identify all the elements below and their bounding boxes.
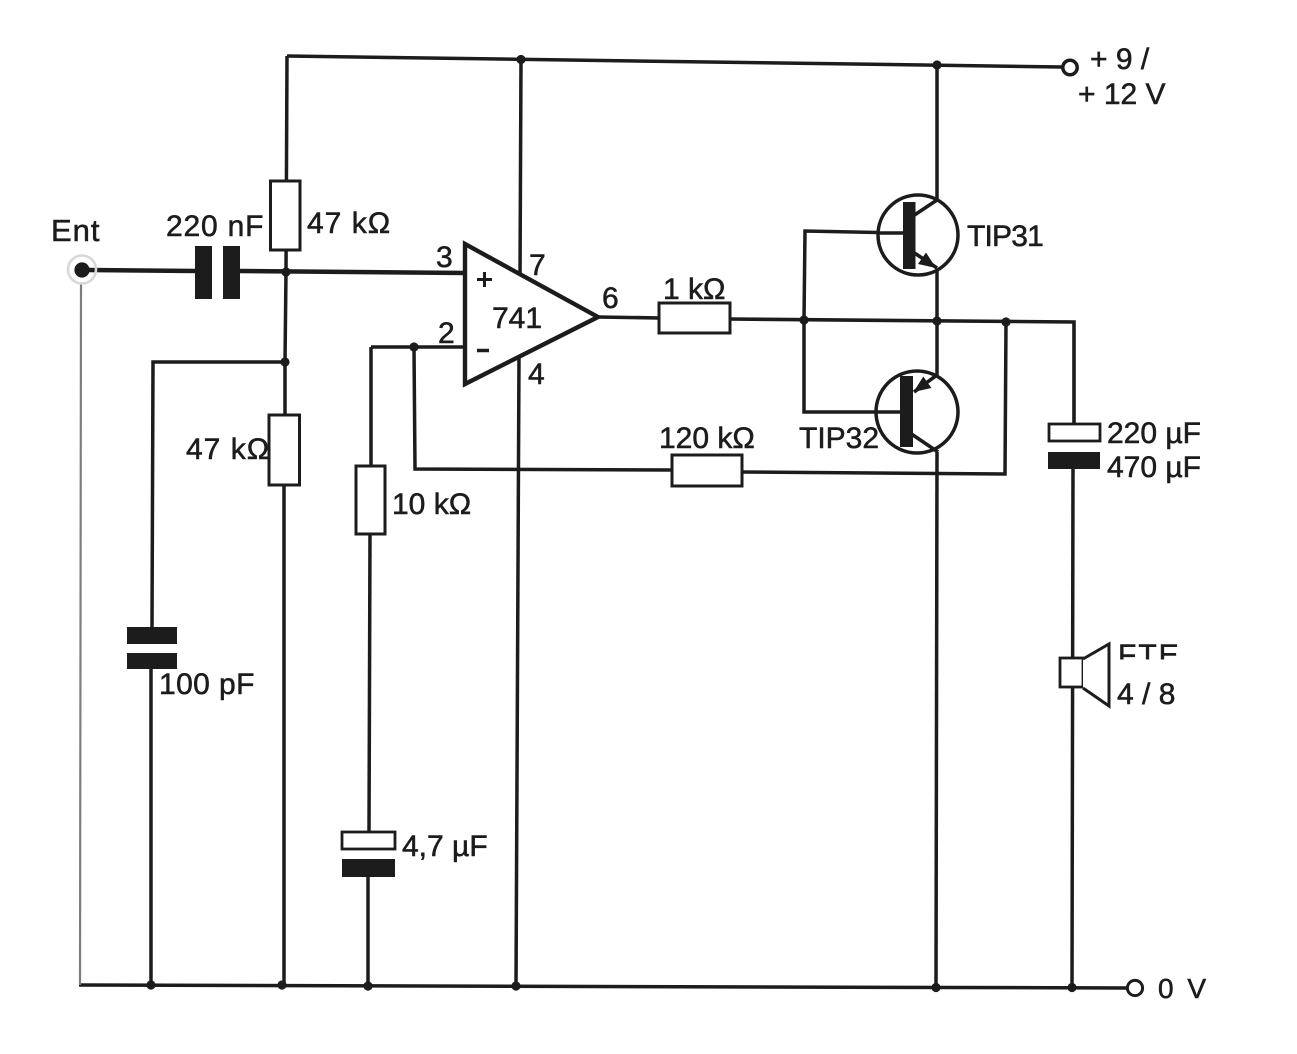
wire node B left and down to 100pF [152, 362, 285, 628]
capacitor C3 4.7uF electrolytic [342, 832, 395, 849]
resistor R1 47k [271, 181, 301, 250]
node rail 100pF [146, 980, 155, 989]
svg-text:7: 7 [529, 249, 546, 282]
node rail speaker [1067, 983, 1076, 992]
node rail 4.7uF [363, 981, 372, 990]
capacitor C2 100pF [127, 627, 177, 644]
node E base drive junction [799, 315, 808, 324]
svg-text:0 V: 0 V [1158, 973, 1209, 1004]
wire pin2 horizontal [371, 345, 465, 349]
svg-text:47 kΩ: 47 kΩ [307, 207, 391, 240]
terminal +V supply [1063, 60, 1077, 74]
capacitor C4 220/470uF electrolytic [1049, 424, 1100, 441]
terminal Ent input [68, 256, 96, 284]
svg-text:4,7 µF: 4,7 µF [402, 830, 488, 863]
wire pin7 vertical [520, 59, 521, 280]
node D output-feedback junction [1001, 317, 1010, 326]
wire TIP31 collector vertical [935, 65, 939, 201]
svg-text:120 kΩ: 120 kΩ [659, 422, 755, 455]
node rail TIP32 collector [931, 983, 940, 992]
terminal 0V [1127, 980, 1142, 995]
svg-text:+ 12 V: + 12 V [1078, 78, 1166, 111]
wire TIP32 base L [804, 320, 900, 412]
resistor R2 47k [269, 415, 300, 485]
svg-text:TIP31: TIP31 [967, 220, 1043, 253]
wire 4.7uF to bottom rail [366, 876, 370, 986]
svg-text:4: 4 [528, 358, 545, 391]
speaker LS [1060, 658, 1083, 687]
wire left vertical from rail to node A [286, 56, 287, 272]
wire top supply rail [287, 56, 1062, 67]
wire input to op-amp pin3 [88, 270, 195, 271]
svg-text:4 / 8: 4 / 8 [1117, 678, 1175, 711]
wire 120k right to riser up to node D [741, 322, 1006, 474]
node rail 47k [277, 980, 286, 989]
node A pin3 junction [281, 267, 290, 276]
node rail pin4 [511, 981, 520, 990]
node top TIP31 collector [932, 60, 941, 69]
node B divider junction [280, 357, 289, 366]
wire pin2 corner down to 10k [369, 347, 373, 466]
pin + mark [477, 272, 492, 287]
node F emitter junction [932, 316, 941, 325]
wire TIP31 base L [804, 231, 903, 320]
svg-text:47 kΩ: 47 kΩ [186, 433, 270, 466]
svg-text:1 kΩ: 1 kΩ [663, 273, 725, 306]
wire op-amp output through 1k to cap corner [598, 317, 660, 318]
transistor Q2 TIP32 [876, 371, 958, 453]
wire TIP31 emitter down to output node [935, 268, 939, 321]
svg-text:220 nF: 220 nF [166, 210, 264, 243]
svg-text:6: 6 [602, 282, 619, 315]
node top pin7 [516, 55, 525, 64]
capacitor C1 220nF [195, 246, 212, 299]
svg-text:10 kΩ: 10 kΩ [392, 488, 471, 521]
svg-text:470 µF: 470 µF [1107, 451, 1201, 484]
svg-text:220 µF: 220 µF [1107, 417, 1201, 450]
svg-text:+ 9 /: + 9 / [1090, 43, 1150, 76]
transistor Q1 TIP31 [878, 195, 958, 275]
wire TIP32 collector down to bottom rail [936, 452, 937, 987]
wire faint input ground return [80, 283, 81, 985]
svg-text:3: 3 [436, 241, 453, 274]
wire TIP32 emitter up to output node [935, 321, 939, 376]
wire 10k to 4.7uF [369, 534, 370, 833]
op-amp U1 741 [465, 244, 598, 384]
resistor R3 10k [356, 466, 385, 534]
svg-text:100 pF: 100 pF [159, 668, 255, 701]
node C pin2 junction [409, 342, 418, 351]
pin - mark [477, 349, 489, 353]
wire feedback node C down to 120k [414, 347, 673, 470]
wire pin4 vertical to bottom rail [516, 356, 519, 986]
wire 100pF to bottom rail [149, 669, 153, 985]
wire bottom 0V rail [79, 985, 1128, 988]
svg-text:Ent: Ent [51, 213, 101, 248]
wire node A down to node B [285, 272, 286, 362]
svg-text:741: 741 [492, 302, 542, 335]
svg-text:2: 2 [438, 317, 455, 350]
resistor R5 120k feedback [672, 455, 742, 486]
svg-text:TIP32: TIP32 [799, 422, 879, 455]
wire node B down through R2 to bottom rail [284, 362, 285, 985]
wire 470uF down through speaker to bottom rail [1072, 468, 1073, 987]
resistor R4 1k [659, 303, 730, 333]
